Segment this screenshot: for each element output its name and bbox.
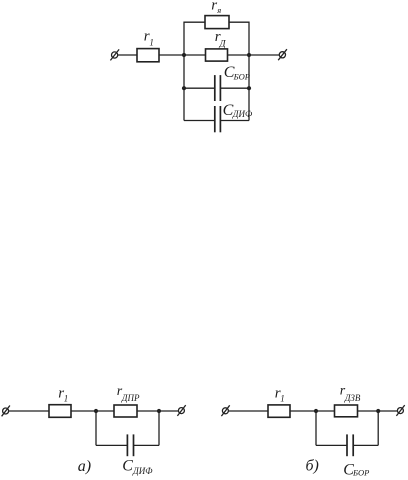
junction dot node F <box>376 409 380 413</box>
wire: node F to T6 <box>378 410 397 412</box>
resistor r_ДПР <box>114 405 137 417</box>
wire: node E to r_ДЗВ <box>316 410 335 412</box>
wire: node C drop <box>95 411 97 445</box>
wire: top branch left segment <box>184 21 206 23</box>
label C_ДИФ (circuit a) <box>122 457 153 476</box>
svg-text:БОР: БОР <box>352 467 369 477</box>
terminal T6 (circuit b, right) <box>396 405 404 416</box>
wire: bottom branch right (circuit a) <box>134 444 160 446</box>
wire: bottom branch left (circuit a) <box>96 444 127 446</box>
label C_ДИФ (top circuit) <box>223 102 253 119</box>
wire: node B to T2 <box>249 54 279 56</box>
svg-text:Д: Д <box>219 40 227 50</box>
label C_БОР <box>224 64 250 82</box>
wire: C_DIF branch right segment <box>220 120 249 122</box>
wire: node E drop <box>315 411 317 445</box>
resistor r_Д (main branch) <box>206 49 228 61</box>
wire: r_ДПР to node D <box>137 410 159 412</box>
svg-text:БОР: БОР <box>233 71 250 81</box>
svg-text:C: C <box>122 457 133 474</box>
resistor r1 (circuit b) <box>268 405 290 417</box>
wire: node C to r_ДПР <box>96 410 114 412</box>
wire: r_ДЗВ to node F <box>358 410 379 412</box>
wire: bottom branch right (circuit b) <box>353 444 378 446</box>
wire: node F drop <box>377 411 379 445</box>
node A left vertical rail <box>183 22 185 121</box>
wire: r1 to node A <box>159 54 184 56</box>
wire: r1a to node C <box>71 410 96 412</box>
capacitor C_БОР plates <box>215 75 221 101</box>
wire: r1b to node E <box>290 410 316 412</box>
wire: T3 to r1a <box>9 410 49 412</box>
svg-text:1: 1 <box>280 393 285 403</box>
terminal T4 (circuit a, right) <box>177 405 185 416</box>
resistor r1 (circuit a) <box>49 405 71 418</box>
terminal T1 (top circuit, left input) <box>110 49 119 60</box>
wire: C_BOR branch right segment <box>220 87 249 89</box>
terminal T5 (circuit b, left) <box>221 405 229 416</box>
label r1 (top circuit) <box>144 29 154 48</box>
junction dot node A cap branch <box>182 86 186 90</box>
wire: T1 to r1 <box>118 54 137 56</box>
wire: node D drop <box>158 411 160 445</box>
svg-text:б): б) <box>306 458 319 475</box>
wire: C_BOR branch left segment <box>184 87 215 89</box>
node B right vertical rail <box>248 22 250 121</box>
svg-text:я: я <box>216 5 221 15</box>
wire: node D to T4 <box>159 410 178 412</box>
junction dot node C <box>94 409 98 413</box>
label r1 (circuit b) <box>275 386 285 404</box>
label r1 (circuit a) <box>58 386 68 404</box>
capacitor C_ДИФ plates (top circuit) <box>215 106 221 132</box>
junction dot node D <box>157 409 161 413</box>
label C_БОР (circuit b) <box>343 461 369 478</box>
junction dot node B cap branch <box>247 86 251 90</box>
capacitor C_БОР plates (circuit b) <box>347 434 353 456</box>
wire: main branch right segment <box>228 54 250 56</box>
svg-text:1: 1 <box>64 393 68 403</box>
svg-text:ДИФ: ДИФ <box>232 109 253 119</box>
wire: top branch right segment <box>229 21 250 23</box>
junction dot node E <box>314 409 318 413</box>
terminal T3 (circuit a, left) <box>2 406 10 417</box>
resistor r_я (armature branch) <box>205 16 229 29</box>
resistor r_ДЗВ <box>335 405 358 417</box>
label r_я <box>211 0 221 15</box>
wire: T5 to r1b <box>228 410 268 412</box>
label a) <box>78 458 91 475</box>
label r_ДЗВ <box>340 383 361 403</box>
svg-text:1: 1 <box>149 37 154 47</box>
svg-text:а): а) <box>78 458 91 475</box>
svg-text:ДЗВ: ДЗВ <box>344 393 361 403</box>
svg-text:ДИФ: ДИФ <box>132 466 153 476</box>
label b) <box>306 458 319 475</box>
junction dot node B main <box>247 53 251 57</box>
junction dot node A main <box>182 53 186 57</box>
label r_Д <box>215 29 227 50</box>
wire: main branch left segment <box>184 54 206 56</box>
wire: C_DIF branch left segment <box>184 120 215 122</box>
wire: bottom branch left (circuit b) <box>316 444 347 446</box>
capacitor C_ДИФ plates (circuit a) <box>127 434 133 456</box>
label r_ДПР <box>117 384 140 403</box>
svg-text:ДПР: ДПР <box>121 393 140 403</box>
terminal T2 (top circuit, right output) <box>278 49 287 60</box>
resistor r1 (top circuit) <box>137 49 159 62</box>
